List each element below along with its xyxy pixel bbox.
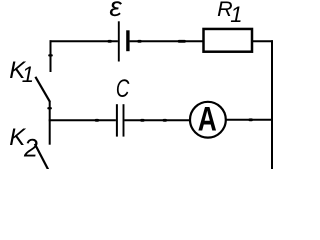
battery E short plate (126, 30, 129, 51)
terminal tick middle wire left of capacitor (95, 119, 99, 122)
terminal tick on left rail above node (47, 107, 52, 109)
terminal tick top wire left of battery (108, 40, 112, 43)
wire middle horizontal: node junction to capacitor (49, 119, 116, 121)
terminal tick on K1 top contact (48, 54, 53, 56)
capacitor C right plate (123, 104, 125, 136)
wire left rail between K1 blade and K2 contact (49, 101, 51, 144)
switch K2 blade (open, cut by image bottom) (35, 144, 49, 170)
wire right vertical rail (271, 40, 273, 169)
battery E long plate (118, 21, 120, 61)
wire ammeter to right rail (226, 119, 273, 121)
svg-text:1: 1 (22, 62, 34, 87)
wire battery to resistor R1 (130, 40, 203, 42)
resistor R1 body (204, 29, 253, 52)
svg-text:ε: ε (109, 0, 122, 22)
terminal tick middle wire left of ammeter (163, 119, 167, 122)
wire resistor to right corner (253, 40, 273, 42)
svg-text:C: C (116, 75, 130, 103)
terminal tick middle wire right of capacitor (140, 119, 144, 122)
terminal tick top wire right of battery (137, 40, 141, 43)
wire capacitor to ammeter (125, 119, 191, 121)
svg-text:A: A (198, 100, 217, 138)
terminal tick middle wire right of ammeter (249, 118, 253, 121)
svg-text:2: 2 (23, 134, 38, 162)
svg-text:1: 1 (230, 2, 242, 27)
wire top horizontal left of battery (50, 40, 118, 42)
capacitor C left plate (116, 104, 118, 136)
terminal tick top wire left of resistor (178, 40, 186, 43)
wire top-left corner vertical (K1 top contact) (50, 40, 52, 72)
ammeter A1 circle (190, 102, 226, 138)
switch K1 blade (open) (35, 77, 50, 102)
